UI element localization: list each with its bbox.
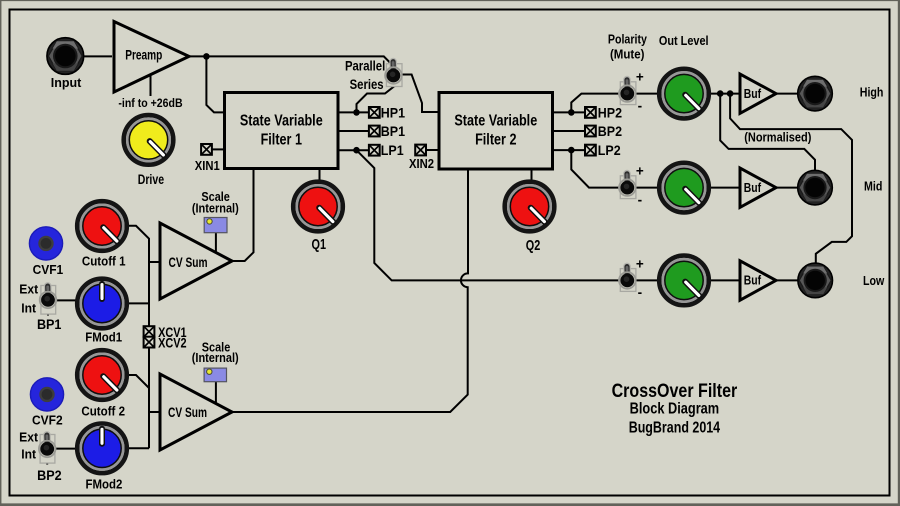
wire CV Sum 1 output to SVF1	[232, 169, 254, 261]
svg-text:FMod2: FMod2	[85, 477, 122, 492]
svg-text:CVF1: CVF1	[33, 263, 64, 277]
wire XIN1 pad to SVF1	[212, 148, 225, 150]
pad BP1	[369, 126, 380, 137]
knob Cutoff 1	[77, 201, 127, 251]
svg-text:+: +	[636, 164, 644, 179]
switch Ext/Int BP1	[40, 286, 57, 315]
node preamp output junction	[203, 53, 210, 60]
jack CVF2	[30, 378, 63, 411]
svg-text:(Mute): (Mute)	[610, 47, 644, 62]
pad XIN1	[201, 144, 212, 155]
jack Mid	[798, 170, 833, 205]
svg-text:+: +	[636, 256, 644, 271]
wire scale trimmer 1 to CV Sum 1	[215, 233, 217, 253]
label Scale (Internal) 1	[192, 189, 239, 216]
svg-text:Filter 1: Filter 1	[261, 131, 302, 149]
wire preamp output to parallel/series switch	[189, 56, 393, 75]
svg-text:Input: Input	[51, 76, 82, 90]
pad XCV1	[144, 326, 155, 337]
wire CV bus with cutoff 1 feed	[129, 226, 149, 448]
label Scale (Internal) 2	[192, 340, 239, 365]
wire low knob to buf	[710, 279, 740, 281]
svg-text:Filter 2: Filter 2	[475, 131, 516, 149]
wire bus to CV Sum 2 input	[149, 411, 161, 413]
svg-text:BP1: BP1	[381, 123, 405, 139]
knob Drive	[124, 115, 174, 165]
svg-text:HP1: HP1	[381, 105, 405, 121]
svg-text:Block Diagram: Block Diagram	[630, 400, 720, 418]
wire SVF1 to Q1 knob	[319, 169, 321, 182]
pad XCV2	[144, 337, 155, 348]
knob Q1	[293, 182, 343, 232]
svg-text:(Internal): (Internal)	[192, 350, 239, 365]
svg-text:CV Sum: CV Sum	[169, 255, 208, 271]
wire BP1 switch stub	[47, 306, 49, 316]
wire LP1 node to low polarity switch	[357, 150, 621, 280]
knob Q2	[505, 182, 555, 232]
label State Variable Filter 2	[454, 112, 537, 149]
wire cutoff 2 to bus	[128, 375, 149, 388]
op-amp Buf mid	[740, 168, 776, 207]
op-amp CV Sum 1	[160, 223, 232, 299]
svg-text:State Variable: State Variable	[454, 112, 537, 130]
svg-text:BP1: BP1	[37, 316, 62, 332]
node high out junction A	[717, 90, 724, 97]
pad BP2	[585, 126, 596, 137]
wire bus to CV Sum 1 input	[149, 261, 161, 263]
knob FMod2	[77, 424, 127, 474]
knob Out Level high	[659, 69, 709, 119]
svg-text:-inf to +26dB: -inf to +26dB	[118, 97, 182, 110]
wire mid buf to jack	[776, 187, 799, 189]
svg-text:High: High	[860, 85, 884, 100]
wire SVF1 BP1 output	[338, 130, 369, 132]
svg-text:Ext: Ext	[19, 282, 38, 296]
svg-text:Parallel: Parallel	[345, 57, 385, 73]
knob Cutoff 2	[77, 350, 127, 400]
switch Ext/Int BP2	[39, 435, 56, 464]
svg-text:BP2: BP2	[598, 123, 622, 139]
switch polarity mid	[619, 174, 636, 199]
wire switch to SVF2 input	[393, 75, 439, 113]
svg-text:Preamp: Preamp	[125, 47, 162, 63]
svg-text:XCV2: XCV2	[158, 336, 187, 351]
jack Input	[47, 38, 84, 75]
pad LP2	[585, 145, 596, 156]
svg-text:CV Sum: CV Sum	[168, 405, 207, 421]
knob Out Level low	[659, 256, 709, 306]
wire preamp gain stub	[150, 75, 152, 96]
svg-text:-: -	[638, 192, 643, 207]
switch Parallel/Series	[385, 62, 402, 87]
wire series switch to HP1 node	[357, 77, 395, 112]
wire SVF1 LP1 output	[338, 149, 369, 151]
svg-text:CVF2: CVF2	[32, 413, 63, 427]
wire LP2 node to mid polarity switch	[571, 150, 620, 188]
svg-text:CrossOver Filter: CrossOver Filter	[612, 380, 738, 402]
svg-text:-: -	[638, 98, 643, 113]
node LP2 junction	[568, 147, 575, 154]
switch polarity low	[619, 266, 636, 291]
svg-text:BugBrand 2014: BugBrand 2014	[629, 419, 720, 437]
pad XIN2	[415, 145, 426, 156]
wire scale trimmer 2 to CV Sum 2	[215, 382, 217, 404]
wire low switch to out level knob	[634, 279, 659, 281]
wire high switch to out level knob	[634, 93, 659, 95]
svg-text:XIN1: XIN1	[195, 158, 220, 173]
wire BP1 switch to FMod1	[56, 299, 77, 301]
pad HP2	[585, 107, 596, 118]
wire SVF2 HP2 output	[553, 111, 586, 113]
svg-text:Q2: Q2	[526, 236, 540, 253]
wire SVF2 to Q2 knob	[531, 169, 533, 181]
svg-text:LP1: LP1	[381, 143, 404, 159]
trimmer Scale 1	[204, 218, 227, 233]
wire input jack to preamp	[83, 55, 112, 57]
op-amp CV Sum 2	[160, 374, 232, 450]
svg-text:+: +	[636, 70, 644, 85]
svg-text:-: -	[638, 285, 643, 300]
svg-text:Ext: Ext	[19, 430, 38, 444]
pad LP1	[369, 145, 380, 156]
node HP1 junction	[353, 109, 360, 116]
wire XIN2 pad to SVF2	[426, 149, 440, 151]
knob Out Level mid	[659, 163, 709, 213]
wire FMod2 to bus	[128, 447, 149, 449]
wire HP2 node to high polarity switch	[571, 94, 620, 113]
svg-text:FMod1: FMod1	[85, 330, 122, 345]
svg-text:LP2: LP2	[598, 142, 621, 158]
wire normalised feed to mid jack	[720, 94, 815, 172]
svg-text:Out Level: Out Level	[659, 33, 709, 48]
jack CVF1	[29, 227, 62, 260]
jack High	[798, 76, 833, 111]
op-amp Buf low	[740, 261, 776, 300]
svg-text:Buf: Buf	[744, 274, 761, 288]
wire mid switch to out level knob	[634, 187, 659, 189]
svg-text:Series: Series	[350, 76, 384, 92]
wire high buf to jack	[776, 93, 799, 95]
svg-text:Int: Int	[21, 302, 36, 316]
wire mid knob to buf	[710, 187, 740, 189]
svg-text:Polarity: Polarity	[608, 31, 647, 46]
pad HP1	[369, 107, 380, 118]
wire CV Sum 2 output to SVF2 with hop over LP1 wire	[232, 169, 468, 412]
svg-text:Cutoff 2: Cutoff 2	[81, 404, 125, 419]
op-amp Buf high	[740, 74, 776, 113]
wire FMod1 to bus	[128, 302, 149, 304]
svg-text:Mid: Mid	[864, 179, 882, 194]
knob FMod1	[77, 279, 127, 329]
switch polarity high	[619, 80, 636, 105]
wire low buf to jack	[776, 279, 799, 281]
svg-text:HP2: HP2	[598, 105, 622, 121]
svg-text:Low: Low	[863, 273, 885, 288]
wire BP2 switch to FMod2	[55, 448, 78, 450]
svg-text:XIN2: XIN2	[409, 156, 434, 171]
node LP1 junction	[353, 147, 360, 154]
label Polarity (Mute)	[608, 31, 647, 62]
svg-text:State Variable: State Variable	[240, 112, 323, 130]
node HP2 junction	[568, 109, 575, 116]
trimmer Scale 2	[204, 368, 226, 382]
box State Variable Filter 2	[439, 93, 553, 170]
wire BP2 switch stub	[46, 455, 48, 465]
svg-text:(Normalised): (Normalised)	[744, 130, 811, 145]
wire SVF2 LP2 output	[553, 149, 586, 151]
op-amp Preamp	[114, 22, 189, 93]
svg-text:Buf: Buf	[744, 181, 761, 195]
svg-text:Drive: Drive	[138, 172, 165, 188]
svg-text:Cutoff 1: Cutoff 1	[82, 254, 126, 269]
box State Variable Filter 1	[225, 93, 339, 169]
wire high knob to buf	[710, 93, 740, 95]
node high out junction B	[727, 90, 734, 97]
label State Variable Filter 1	[240, 112, 323, 149]
svg-text:(Internal): (Internal)	[192, 201, 239, 216]
wire junction to SVF1 input	[206, 56, 224, 112]
svg-text:BP2: BP2	[37, 468, 61, 484]
wire SVF1 HP1 output	[338, 111, 369, 113]
svg-text:Buf: Buf	[744, 87, 761, 101]
svg-text:Int: Int	[21, 448, 36, 462]
jack Low	[798, 263, 833, 298]
wire SVF2 BP2 output	[553, 130, 586, 132]
svg-text:Q1: Q1	[312, 236, 326, 253]
wire normalised feed to low jack	[730, 94, 852, 265]
